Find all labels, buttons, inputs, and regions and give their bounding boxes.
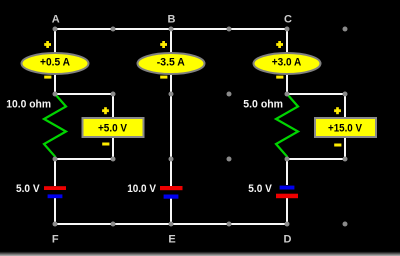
ammeter M1 minus polarity mark <box>44 76 51 79</box>
wire middle branch B to row2 <box>170 29 172 94</box>
voltmeter U1 plus polarity mark <box>102 107 109 114</box>
wire voltmeter U1 bottom lead <box>112 137 114 159</box>
node A junction dot <box>53 27 58 32</box>
resistor R1 value label 10.0 ohm <box>6 99 51 111</box>
junction dot resistor R1 bottom <box>53 157 58 162</box>
wire voltmeter U1 top lead <box>112 94 114 118</box>
battery BT1 value label 5.0 V <box>16 183 40 195</box>
voltmeter U2 minus polarity mark <box>334 144 341 147</box>
junction dot voltmeter U2 bottom <box>343 157 348 162</box>
ammeter M3 plus polarity mark <box>276 41 283 48</box>
voltmeter U1 +5.0 V <box>83 118 144 137</box>
node label B <box>168 13 176 25</box>
svg-text:E: E <box>168 233 175 245</box>
junction dot resistor R1 top <box>53 92 58 97</box>
battery BT2 value label 10.0 V <box>127 183 156 195</box>
node D junction dot <box>285 222 290 227</box>
wire voltmeter U2 top lead <box>344 94 346 118</box>
wire right branch C to row2 <box>286 29 288 94</box>
svg-text:10.0 ohm: 10.0 ohm <box>6 99 51 111</box>
voltmeter U2 plus polarity mark <box>334 107 341 114</box>
battery BT3 positive plate (red) <box>276 194 298 199</box>
node E junction dot <box>169 222 174 227</box>
node label F <box>52 233 59 245</box>
svg-text:B: B <box>168 13 176 25</box>
node C junction dot <box>285 27 290 32</box>
svg-text:D: D <box>284 233 292 245</box>
svg-text:5.0 V: 5.0 V <box>248 183 272 195</box>
svg-text:+15.0 V: +15.0 V <box>328 123 363 135</box>
wire row2 left link <box>55 93 113 95</box>
resistor R2 value label 5.0 ohm <box>243 99 283 111</box>
ammeter M2 plus polarity mark <box>160 41 167 48</box>
svg-text:+5.0 V: +5.0 V <box>98 123 128 135</box>
junction dot bottom bus x229 <box>227 222 232 227</box>
resistor R2 5.0 ohm zigzag <box>276 94 298 159</box>
unconnected grid dot x229 row2 <box>227 92 232 97</box>
svg-text:5.0 V: 5.0 V <box>16 183 40 195</box>
junction dot resistor R2 top <box>285 92 290 97</box>
svg-text:A: A <box>52 13 60 25</box>
ammeter M2 minus polarity mark <box>160 76 167 79</box>
battery BT3 negative plate (blue) <box>280 186 295 190</box>
svg-text:-3.5 A: -3.5 A <box>157 57 185 69</box>
wire battery BT1 bottom lead <box>54 198 56 224</box>
wire row2 right link <box>287 93 345 95</box>
battery BT1 positive plate (red) <box>44 186 66 190</box>
wire row3 left link <box>55 158 113 160</box>
node B junction dot <box>169 27 174 32</box>
ammeter M2 -3.5 A <box>138 53 205 74</box>
wire bottom bus F-E-D <box>55 223 287 225</box>
junction dot top bus x113 <box>111 27 116 32</box>
unconnected grid dot x229 row3 <box>227 157 232 162</box>
wire middle branch row2 to row3 <box>170 94 172 159</box>
wire battery BT3 top lead <box>286 159 288 185</box>
wire battery BT1 top lead <box>54 159 56 186</box>
ammeter M1 plus polarity mark <box>44 41 51 48</box>
wire battery BT2 bottom lead <box>170 198 172 224</box>
svg-text:+0.5 A: +0.5 A <box>40 57 70 69</box>
svg-text:+3.0 A: +3.0 A <box>272 57 302 69</box>
svg-text:10.0 V: 10.0 V <box>127 183 156 195</box>
ammeter M3 +3.0 A <box>254 53 321 74</box>
voltmeter U1 minus polarity mark <box>102 143 109 146</box>
junction dot top bus x229 <box>227 27 232 32</box>
node label E <box>168 233 175 245</box>
junction dot middle branch row3 <box>169 157 174 162</box>
ammeter M1 +0.5 A <box>22 53 89 74</box>
wire top bus A-B-C <box>55 28 287 30</box>
wire row3 right link <box>287 158 345 160</box>
battery BT2 positive plate (red) <box>160 186 183 190</box>
battery BT2 negative plate (blue) <box>164 195 179 199</box>
battery BT1 negative plate (blue) <box>48 194 63 198</box>
junction dot voltmeter U1 bottom <box>111 157 116 162</box>
resistor R1 10.0 ohm zigzag <box>44 94 66 159</box>
node label C <box>284 13 292 25</box>
junction dot bottom bus x113 <box>111 222 116 227</box>
junction dot resistor R2 bottom <box>285 157 290 162</box>
svg-text:5.0 ohm: 5.0 ohm <box>243 99 283 111</box>
node label A <box>52 13 60 25</box>
unconnected grid dot x345 row4 <box>343 222 348 227</box>
battery BT3 value label 5.0 V <box>248 183 272 195</box>
node F junction dot <box>53 222 58 227</box>
wire voltmeter U2 bottom lead <box>344 137 346 159</box>
voltmeter U2 +15.0 V <box>315 118 376 137</box>
wire battery BT2 top lead <box>170 159 172 186</box>
node label D <box>284 233 292 245</box>
wire left branch A to row2 <box>54 29 56 94</box>
junction dot voltmeter U1 top <box>111 92 116 97</box>
junction dot voltmeter U2 top <box>343 92 348 97</box>
ammeter M3 minus polarity mark <box>276 76 283 79</box>
junction dot middle branch row2 <box>169 92 174 97</box>
svg-text:C: C <box>284 13 292 25</box>
wire battery BT3 bottom lead <box>286 198 288 224</box>
svg-text:F: F <box>52 233 59 245</box>
unconnected grid dot x345 row1 <box>343 27 348 32</box>
